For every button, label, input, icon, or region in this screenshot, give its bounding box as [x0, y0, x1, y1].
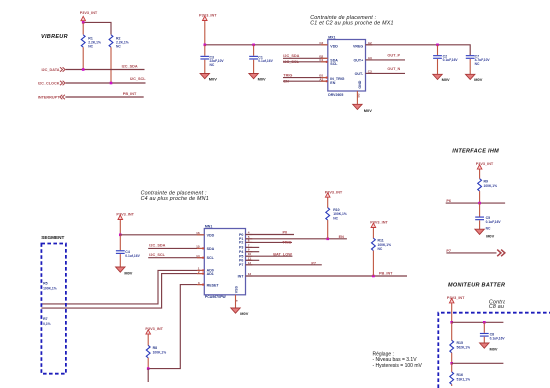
- wire net P7 (IHM): [446, 252, 496, 254]
- svg-text:I2C_SCL: I2C_SCL: [130, 77, 146, 81]
- svg-text:R5: R5: [43, 282, 48, 286]
- ground M0V (C4): [116, 267, 133, 276]
- resistor R8: [146, 335, 166, 368]
- power net P3V3_INT (MX1): [199, 13, 217, 22]
- op-amp U driver MX1 body: [328, 40, 366, 92]
- power net P3V3_INT (top-left): [80, 11, 98, 22]
- svg-text:NC: NC: [116, 45, 121, 49]
- power net P3V3_INT (R11): [370, 221, 388, 229]
- wire R2 to I2C_CLOCK line: [110, 47, 112, 83]
- svg-text:SEGMENT: SEGMENT: [41, 235, 64, 240]
- node junction R1/I2C_SDA: [82, 68, 85, 71]
- port I2C_CLOCK: [38, 81, 65, 86]
- node junction divider top: [450, 321, 453, 324]
- wire horizontal branch to R2: [83, 22, 111, 34]
- svg-text:VDD: VDD: [330, 45, 338, 49]
- svg-text:GND: GND: [358, 80, 362, 88]
- wire R8 stub down: [147, 369, 149, 382]
- svg-text:I2C_CLOCK: I2C_CLOCK: [38, 81, 60, 85]
- resistor R11: [372, 229, 392, 276]
- wire VDD rail to MN1: [120, 234, 204, 236]
- wire EN to EN pin: [283, 80, 328, 82]
- wire net EN (P1): [246, 238, 347, 240]
- svg-text:M0V: M0V: [442, 77, 450, 82]
- ground M0V (MX1): [353, 104, 373, 113]
- svg-text:2: 2: [198, 270, 200, 274]
- svg-text:P3V3_INT: P3V3_INT: [116, 212, 134, 216]
- svg-text:51K1,1%: 51K1,1%: [457, 377, 471, 381]
- svg-text:NC: NC: [486, 226, 491, 230]
- wire net P6: [446, 202, 505, 204]
- node junction divider mid: [450, 362, 453, 365]
- svg-text:P7: P7: [446, 249, 451, 253]
- ground M0V (C2): [433, 74, 450, 82]
- svg-text:3: 3: [198, 281, 200, 285]
- svg-text:16: 16: [196, 231, 200, 235]
- svg-text:BAT_LOW: BAT_LOW: [273, 252, 292, 256]
- node junction C2: [436, 44, 439, 47]
- resistor R15: [450, 322, 470, 363]
- wire top rail to C8: [452, 321, 504, 323]
- wire VREG rail: [366, 45, 471, 55]
- svg-text:C4 au plus proche de MN1: C4 au plus proche de MN1: [141, 196, 209, 202]
- svg-text:0.1uf,16V: 0.1uf,16V: [258, 59, 273, 63]
- svg-text:EN: EN: [339, 235, 345, 239]
- svg-text:I2C_SDA: I2C_SDA: [149, 243, 165, 247]
- svg-text:I2C_SDA: I2C_SDA: [283, 54, 299, 58]
- svg-text:0.1uF,16V: 0.1uF,16V: [486, 220, 502, 224]
- pin dot SDA: [202, 247, 204, 249]
- resistor R10: [326, 198, 347, 239]
- wire TRIG to IN_TRIG pin: [283, 77, 328, 79]
- svg-text:100K,1%: 100K,1%: [43, 287, 57, 291]
- power net P3V3_INT (MN1): [116, 212, 134, 221]
- svg-text:MONITEUR BATTERIE: MONITEUR BATTERIE: [448, 283, 511, 289]
- wire net PB_INT (INT pin 13): [246, 275, 408, 277]
- capacitor C3: [200, 45, 224, 73]
- svg-text:PB_INT: PB_INT: [379, 272, 393, 276]
- power net P3V3_INT (R8): [145, 327, 163, 336]
- node junction R11/PB_INT: [372, 275, 375, 278]
- wire net PB_INT (left): [65, 96, 143, 98]
- svg-text:P0: P0: [283, 231, 288, 235]
- wire OUT-: [366, 72, 406, 74]
- svg-text:M0V: M0V: [209, 76, 217, 81]
- svg-text:P7: P7: [311, 261, 316, 265]
- svg-text:OUT+: OUT+: [354, 58, 364, 62]
- svg-text:R15: R15: [457, 341, 463, 345]
- svg-text:P4: P4: [239, 250, 243, 254]
- svg-text:0.1uF,16V: 0.1uF,16V: [490, 336, 506, 340]
- svg-text:TRIG: TRIG: [283, 74, 292, 78]
- svg-text:M0V: M0V: [474, 77, 482, 82]
- node junction at power branch: [82, 21, 85, 24]
- svg-text:INT: INT: [238, 274, 245, 278]
- ground M0V (C8): [480, 343, 498, 352]
- wire OUT+: [366, 59, 406, 61]
- wire net P0: [246, 234, 295, 236]
- svg-text:0.1uF,16V: 0.1uF,16V: [443, 58, 459, 62]
- node junction C3: [204, 44, 207, 47]
- wire net I2C_SCL: [66, 82, 146, 84]
- pin dot EN: [326, 80, 328, 82]
- node junction C1: [252, 44, 255, 47]
- pin dot SCL: [326, 61, 328, 63]
- svg-text:NC: NC: [88, 45, 93, 49]
- svg-text:NC: NC: [475, 62, 480, 66]
- wire power to junction: [82, 21, 84, 24]
- wire MX1 GND stub: [356, 91, 358, 104]
- svg-text:DRV2605: DRV2605: [328, 93, 343, 97]
- svg-text:OUT-: OUT-: [355, 72, 364, 76]
- wire power stem: [204, 22, 206, 45]
- wire MN1 VSS stub: [235, 295, 237, 308]
- wire net BAT_LOW (P5): [246, 255, 293, 257]
- svg-text:R8: R8: [153, 346, 158, 350]
- svg-text:MX1: MX1: [328, 36, 335, 40]
- power net P3V3_INT (R9): [476, 162, 494, 170]
- wire P3 stub: [246, 246, 260, 248]
- wire I2C_SDA to SDA pin: [283, 57, 328, 59]
- svg-text:C1: C1: [319, 58, 323, 62]
- resistor R16: [450, 363, 470, 386]
- svg-text:9: 9: [248, 248, 250, 252]
- pin dot AD1: [202, 273, 204, 275]
- svg-text:PCA9670PW: PCA9670PW: [205, 295, 227, 299]
- svg-text:TRIG: TRIG: [282, 241, 291, 245]
- svg-text:0.1uf,16V: 0.1uf,16V: [125, 254, 140, 258]
- ground M0V (C1): [249, 74, 266, 82]
- svg-text:R7: R7: [43, 317, 48, 321]
- svg-text:INTERRUPT: INTERRUPT: [38, 95, 60, 99]
- svg-text:VSS: VSS: [234, 286, 238, 294]
- svg-text:VDD: VDD: [207, 233, 215, 237]
- svg-text:I2C_DATA: I2C_DATA: [41, 68, 59, 72]
- capacitor C1: [249, 45, 273, 73]
- capacitor C7: [466, 54, 491, 74]
- wire down to R1: [82, 22, 84, 34]
- svg-text:15: 15: [196, 244, 200, 248]
- svg-text:0,1%: 0,1%: [43, 322, 51, 326]
- svg-text:14: 14: [196, 254, 200, 258]
- svg-text:INTERFACE IHM: INTERFACE IHM: [452, 149, 499, 155]
- resistor R2: [109, 35, 129, 49]
- svg-text:I2C_SDA: I2C_SDA: [122, 64, 138, 68]
- wire AD1 net: [41, 274, 204, 309]
- node junction C8: [483, 321, 486, 324]
- wire I2C_SCL to SCL pin: [283, 61, 328, 63]
- wire P4 stub: [246, 251, 260, 253]
- svg-text:AD1: AD1: [207, 272, 214, 276]
- node junction R10/EN: [326, 238, 329, 241]
- svg-text:A1: A1: [319, 77, 323, 81]
- svg-text:P3V3_INT: P3V3_INT: [199, 13, 217, 17]
- svg-text:- Hysteresis = 100 mV: - Hysteresis = 100 mV: [373, 363, 423, 369]
- pin dot IN_TRIG: [326, 77, 328, 79]
- resistor R5 (label): [43, 282, 57, 291]
- ground M0V (C5): [475, 229, 495, 238]
- svg-text:M0V: M0V: [124, 271, 132, 276]
- svg-text:M0V: M0V: [364, 108, 372, 113]
- svg-text:P3V3_INT: P3V3_INT: [447, 296, 465, 300]
- svg-text:VREG: VREG: [353, 45, 363, 49]
- pin dot RESET: [202, 284, 204, 286]
- node junction R2/I2C_SCL: [110, 82, 113, 85]
- wire I2C_SDA to SDA pin: [148, 247, 204, 249]
- svg-text:NC: NC: [333, 217, 338, 221]
- svg-text:11: 11: [248, 256, 252, 260]
- port I2C_DATA: [41, 67, 65, 72]
- node junction C4: [119, 234, 122, 237]
- power net P3V3_INT (R10): [325, 190, 343, 198]
- wire AD0 net: [41, 270, 204, 304]
- wire MN1 pin stubs: [197, 234, 204, 236]
- svg-text:C1 et C2 au plus proche de MX1: C1 et C2 au plus proche de MX1: [310, 21, 393, 27]
- wire net P7: [246, 264, 322, 266]
- node junction R8/RESET: [147, 367, 150, 370]
- node junction R9/P6/C5: [478, 202, 481, 205]
- svg-text:C8 au plus proche de MN2: C8 au plus proche de MN2: [489, 304, 550, 310]
- wire RESET net: [148, 285, 204, 369]
- resistor R9: [478, 170, 497, 203]
- svg-text:R16: R16: [457, 373, 463, 377]
- svg-text:M0V: M0V: [490, 347, 498, 352]
- svg-text:100K,1%: 100K,1%: [378, 243, 392, 247]
- svg-text:NC: NC: [210, 63, 215, 67]
- port INTERRUPT: [38, 95, 65, 100]
- svg-text:100K,1%: 100K,1%: [484, 184, 498, 188]
- power net P3V3_INT (battery): [447, 296, 465, 304]
- svg-text:I2C_SCL: I2C_SCL: [149, 253, 165, 257]
- svg-text:EN: EN: [330, 81, 335, 85]
- svg-text:MN1: MN1: [205, 225, 212, 229]
- capacitor C4: [116, 235, 141, 267]
- wire power stem (battery): [451, 304, 453, 322]
- note Contrainte de placement C4: [141, 190, 209, 202]
- wire net TRIG (P2): [246, 241, 293, 243]
- svg-text:M0V: M0V: [240, 311, 248, 316]
- svg-text:100K,1%: 100K,1%: [153, 351, 167, 355]
- svg-text:RESET: RESET: [207, 283, 220, 287]
- svg-text:OUT_P: OUT_P: [387, 54, 400, 58]
- svg-text:100K,1%: 100K,1%: [333, 212, 347, 216]
- svg-text:SCL: SCL: [207, 256, 215, 260]
- wire R1 to I2C_DATA line: [82, 47, 84, 69]
- wire power stem to VDD rail: [119, 221, 121, 235]
- svg-text:P6: P6: [239, 259, 243, 263]
- svg-text:P3V3_INT: P3V3_INT: [80, 11, 98, 15]
- svg-text:P3V3_INT: P3V3_INT: [476, 162, 494, 166]
- svg-text:SDA: SDA: [207, 247, 215, 251]
- svg-text:P7: P7: [239, 263, 243, 267]
- svg-text:C2: C2: [319, 41, 323, 45]
- wire VDD rail to MX1: [205, 44, 328, 46]
- svg-text:R9: R9: [484, 179, 489, 183]
- ground M0V (C7): [466, 74, 483, 82]
- svg-text:PB_INT: PB_INT: [123, 92, 137, 96]
- capacitor C8: [480, 322, 506, 343]
- svg-text:P2: P2: [239, 241, 243, 245]
- svg-text:P6: P6: [446, 199, 451, 203]
- IC MN1 body: [204, 229, 245, 295]
- svg-text:M0V: M0V: [486, 233, 494, 238]
- svg-text:NC: NC: [378, 247, 383, 251]
- capacitor C5: [475, 203, 501, 230]
- capacitor C2: [433, 45, 458, 74]
- note Contrainte de placement C8: [489, 300, 550, 310]
- wire I2C_SCL to SCL pin: [148, 257, 204, 259]
- resistor R7 (label): [43, 317, 51, 326]
- note Reglage: [373, 351, 423, 369]
- wire mid rail: [452, 362, 504, 364]
- pin dot SCL: [202, 257, 204, 259]
- svg-text:M0V: M0V: [258, 76, 266, 81]
- svg-text:OUT_N: OUT_N: [387, 67, 400, 71]
- svg-text:12: 12: [248, 261, 252, 265]
- port chevron P7: [497, 250, 505, 257]
- ground M0V (MN1): [231, 308, 249, 316]
- dashed box MONITEUR BATTERIE: [438, 313, 550, 388]
- resistor R1: [81, 35, 101, 49]
- wire MX1 pin stubs: [321, 44, 328, 46]
- wire net I2C_SDA: [66, 69, 145, 71]
- svg-text:SCL: SCL: [330, 62, 338, 66]
- pin dot AD0: [202, 269, 204, 271]
- note Contrainte de placement C1 C2: [310, 15, 393, 27]
- svg-text:VIBREUR: VIBREUR: [41, 34, 68, 40]
- wire P6 stub: [246, 259, 260, 261]
- ground M0V (C3): [200, 74, 217, 82]
- dashed box SEGMENT: [41, 244, 66, 374]
- svg-text:562K,1%: 562K,1%: [457, 346, 471, 350]
